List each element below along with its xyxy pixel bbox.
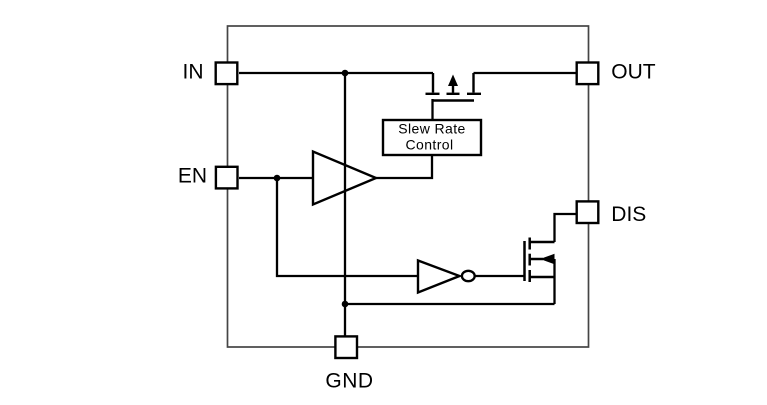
svg-text:EN: EN — [178, 165, 207, 188]
svg-text:GND: GND — [325, 370, 373, 393]
svg-text:OUT: OUT — [611, 61, 656, 84]
svg-text:Control: Control — [406, 137, 454, 153]
svg-text:Slew Rate: Slew Rate — [398, 121, 465, 137]
svg-text:DIS: DIS — [611, 203, 646, 226]
svg-text:IN: IN — [183, 61, 204, 84]
